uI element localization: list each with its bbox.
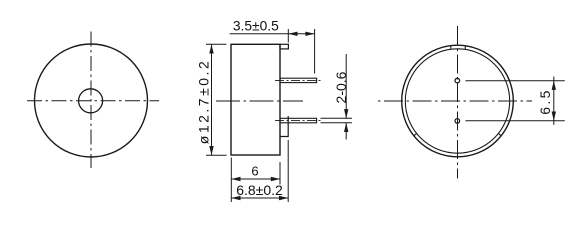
dimension 3.5±0.5 right extension line: [314, 29, 316, 74]
bottom view vertical centerline: [457, 26, 459, 179]
upper pin hole: [455, 78, 460, 83]
lower pin centerline: [275, 120, 321, 122]
bottom view outer circle: [402, 45, 514, 157]
dimension 6 extension lines: [230, 158, 232, 203]
svg-text:6: 6: [251, 164, 258, 179]
upper pin: [280, 78, 317, 82]
top tab tick left: [450, 46, 452, 50]
bottom view horizontal centerline: [378, 100, 532, 102]
front view center hole circle: [79, 89, 103, 113]
dimension 6.8±0.2 line with arrows: [231, 197, 288, 199]
svg-text:2-0.6: 2-0.6: [333, 71, 349, 103]
upper pin centerline: [275, 79, 321, 81]
svg-text:3.5±0.5: 3.5±0.5: [233, 19, 279, 34]
dimension 6 line with arrows: [231, 178, 280, 180]
side view body outline: [231, 44, 280, 155]
boss step below lower pin: [280, 116, 288, 137]
dimension 6.5 line with arrows: [553, 77, 555, 125]
side view horizontal centerline: [216, 100, 303, 102]
dimension 3.5±0.5 line: [230, 33, 315, 35]
bottom view inner circle: [405, 49, 509, 153]
lower-left seam tick: [414, 133, 417, 135]
front view vertical centerline: [90, 32, 92, 169]
dimension ø12.7±0.2 line with arrows: [211, 44, 213, 155]
dimension 6.5 extension lines: [466, 80, 565, 82]
svg-text:6.8±0.2: 6.8±0.2: [236, 182, 283, 198]
side view top-right tab: [280, 44, 288, 49]
svg-text:ø12.7±0.2: ø12.7±0.2: [196, 59, 212, 144]
lower pin hole: [455, 119, 460, 124]
lower pin: [280, 118, 317, 123]
front view outer circle: [35, 44, 148, 157]
dimension 2-0.6 extension lines: [321, 117, 353, 119]
dimension 3.5±0.5 left extension tick: [287, 29, 289, 43]
dimension 3.5±0.5 arrows: [288, 32, 297, 36]
lower-right seam tick: [498, 133, 501, 135]
dimension ø12.7±0.2 extension lines: [206, 43, 227, 45]
dimension 2-0.6 line with arrows: [345, 54, 347, 118]
svg-text:6.5: 6.5: [537, 88, 553, 114]
top tab tick right: [464, 46, 466, 50]
dimension 6.8±0.2 right extension line: [287, 140, 289, 202]
front view horizontal centerline: [27, 100, 159, 102]
